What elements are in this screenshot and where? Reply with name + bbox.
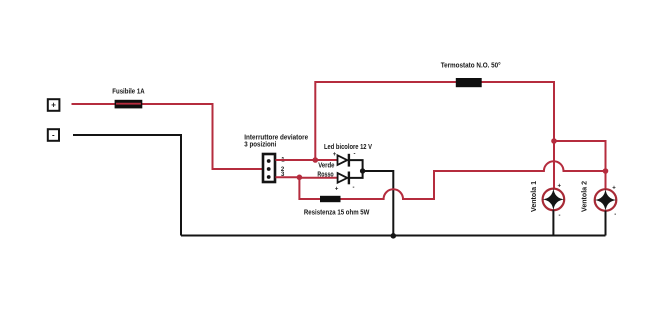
terminal + [48,99,60,111]
svg-text:Verde: Verde [318,162,334,169]
svg-text:-: - [614,212,616,218]
wire switch pin 1 to node A (red) [276,159,316,161]
diode LED Rosso [338,172,349,185]
svg-text:+: + [558,184,562,190]
wire - terminal to bottom rail (black) [73,135,181,236]
diode LED Verde [338,154,349,167]
svg-text:Fusibile 1A: Fusibile 1A [112,89,144,96]
wire node B to fan 2 feed (red) [554,141,606,171]
terminal - [48,129,59,141]
wire + terminal to switch pin 2 (red, via fuse) [72,104,263,169]
svg-text:-: - [559,213,561,219]
svg-text:-: - [354,152,356,158]
wire led cathodes bus (black) [350,160,363,178]
svg-text:Resistenza 15 ohm 5W: Resistenza 15 ohm 5W [304,210,370,217]
svg-text:Led bicolore 12 V: Led bicolore 12 V [324,144,372,151]
node E junction led cathode bus [360,168,365,173]
wire switch pin 3 to node D (red) [276,176,300,178]
wire bottom rail (black) [181,235,606,237]
svg-text:+: + [333,152,337,158]
wire node A up and across to thermostat then down to node B (red) [315,82,554,160]
svg-text:Ventola 2: Ventola 2 [582,181,589,212]
resistor Resistenza 15 ohm 5W [320,196,341,202]
wire node A to led verde anode (red) [315,159,337,161]
svg-text:Interruttore deviatore: Interruttore deviatore [244,134,308,141]
svg-text:3 posizioni: 3 posizioni [244,141,276,148]
node C junction fan2 feed and led/resistor return [603,168,609,174]
fan Ventola 1 [542,188,565,211]
wire fan 2 minus to bottom rail (black) [605,211,607,236]
svg-text:+: + [51,101,56,110]
node F junction on bottom rail [391,233,397,239]
switch Interruttore deviatore 3 posizioni [263,154,275,182]
node A junction pin1/thermostat/led verde [313,157,319,163]
fan Ventola 2 [594,189,617,212]
wire resistor to node C with hops (red) [341,161,606,199]
svg-text:+: + [612,186,616,192]
svg-text:Termostato N.O. 50°: Termostato N.O. 50° [441,61,501,69]
svg-text:-: - [52,131,55,140]
wire fan 1 minus to bottom rail (black) [552,210,554,235]
fuse Fusibile 1A [115,100,143,109]
wire node D to resistor (red) [299,177,320,199]
svg-text:Rosso: Rosso [317,171,333,178]
svg-text:Ventola 1: Ventola 1 [531,181,538,212]
svg-text:-: - [353,185,355,191]
wire node C to fan 2 plus (red) [605,171,607,190]
wire node D to led rosso anode (red) [299,177,337,179]
node B junction thermostat to fans [551,138,557,144]
wire node E to bottom rail (black) [363,171,394,236]
svg-text:+: + [335,187,339,193]
thermostat Termostato N.O. 50 [456,78,482,87]
wire node B to fan 1 plus (red) [553,141,555,189]
node D junction pin3/led rosso/resistor [297,175,303,181]
